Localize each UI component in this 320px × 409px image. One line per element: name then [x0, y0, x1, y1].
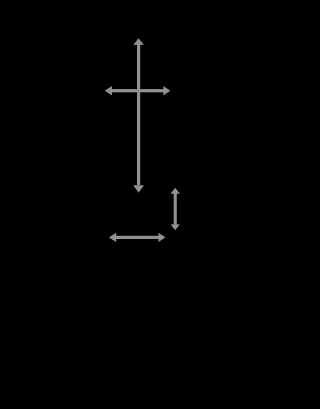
arrowhead right [163, 86, 170, 95]
arrowhead left [109, 233, 116, 242]
wire: vertical shaft [174, 193, 177, 225]
arrowhead right [158, 233, 165, 242]
arrowhead up [171, 188, 180, 194]
arrowhead up [133, 38, 144, 45]
wire: vertical shaft [137, 44, 140, 186]
arrowhead down [133, 185, 144, 193]
long vertical double arrow [133, 38, 144, 193]
horizontal double arrow (crossing) [105, 86, 171, 95]
small vertical double arrow [171, 188, 180, 231]
wire: horizontal shaft [115, 236, 160, 239]
arrowhead left [105, 86, 112, 95]
bottom horizontal double arrow [109, 233, 165, 242]
wire: horizontal shaft [111, 89, 166, 92]
arrowhead down [171, 224, 180, 230]
